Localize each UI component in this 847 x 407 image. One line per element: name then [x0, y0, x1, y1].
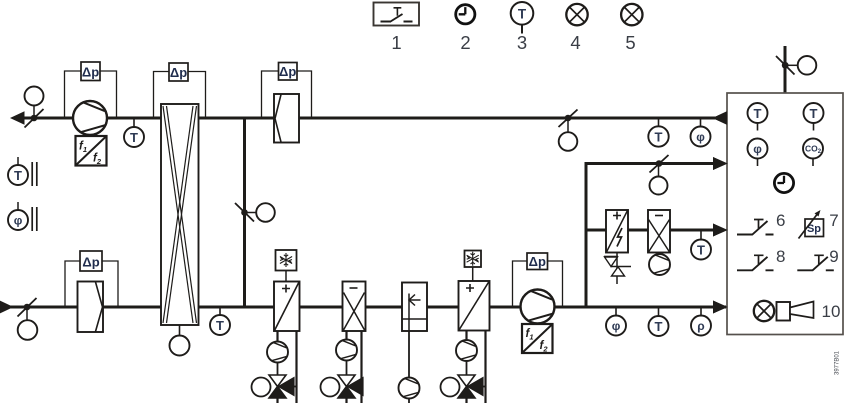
svg-text:ρ: ρ	[697, 319, 704, 333]
svg-text:T: T	[655, 319, 663, 334]
svg-text:10: 10	[822, 302, 841, 321]
svg-text:Δp: Δp	[82, 255, 99, 270]
svg-text:Δp: Δp	[529, 254, 546, 269]
svg-text:T: T	[14, 168, 22, 183]
svg-text:2: 2	[460, 32, 470, 53]
svg-text:T: T	[216, 318, 224, 333]
svg-text:T: T	[130, 130, 138, 145]
svg-text:Δp: Δp	[82, 65, 99, 80]
svg-text:9: 9	[829, 247, 838, 266]
svg-text:7: 7	[829, 211, 838, 230]
svg-text:3: 3	[517, 32, 527, 53]
svg-text:1: 1	[391, 32, 401, 53]
svg-text:T: T	[518, 6, 527, 21]
svg-text:4: 4	[570, 32, 580, 53]
svg-text:5: 5	[625, 32, 635, 53]
svg-text:T: T	[754, 106, 762, 121]
svg-text:φ: φ	[612, 319, 621, 333]
svg-text:T: T	[697, 242, 705, 257]
svg-text:φ: φ	[696, 130, 705, 144]
svg-text:φ: φ	[753, 142, 762, 156]
svg-text:6: 6	[776, 211, 785, 230]
svg-text:Δp: Δp	[170, 65, 187, 80]
svg-text:Δp: Δp	[279, 64, 296, 79]
svg-text:T: T	[655, 129, 663, 144]
svg-text:φ: φ	[14, 214, 23, 228]
svg-text:T: T	[810, 106, 818, 121]
svg-text:3977B01: 3977B01	[835, 350, 841, 375]
svg-text:8: 8	[776, 247, 785, 266]
